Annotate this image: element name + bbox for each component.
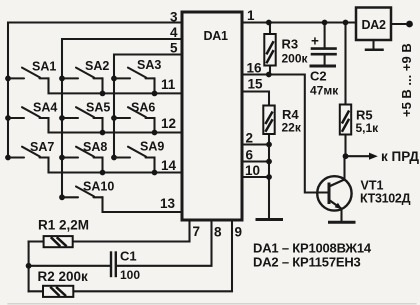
svg-text:C1: C1 (120, 249, 137, 264)
svg-text:200к: 200к (282, 52, 309, 66)
svg-text:47мк: 47мк (310, 84, 339, 98)
svg-text:12: 12 (161, 116, 176, 131)
svg-text:SA10: SA10 (83, 180, 114, 194)
svg-text:КТ3102Д: КТ3102Д (360, 192, 411, 206)
svg-text:SA6: SA6 (131, 101, 155, 115)
svg-text:5,1к: 5,1к (356, 121, 380, 135)
svg-text:2: 2 (246, 131, 254, 146)
svg-text:R3: R3 (282, 37, 299, 52)
svg-text:DA1: DA1 (204, 29, 228, 43)
svg-text:SA2: SA2 (85, 59, 109, 73)
svg-text:9: 9 (235, 225, 243, 240)
svg-text:11: 11 (161, 77, 176, 92)
svg-text:16: 16 (247, 61, 263, 76)
svg-text:1: 1 (247, 8, 255, 23)
svg-text:C2: C2 (310, 69, 327, 84)
svg-text:DA2: DA2 (362, 18, 386, 32)
svg-text:13: 13 (160, 196, 176, 211)
svg-text:SA5: SA5 (86, 101, 110, 115)
svg-text:SA3: SA3 (137, 58, 161, 72)
svg-text:SA4: SA4 (33, 101, 57, 115)
svg-text:DA1 – КР1008ВЖ14: DA1 – КР1008ВЖ14 (253, 241, 372, 256)
svg-text:10: 10 (245, 163, 260, 178)
svg-text:+: + (311, 34, 319, 49)
svg-text:3: 3 (170, 10, 178, 25)
svg-text:SA1: SA1 (32, 60, 56, 74)
svg-text:4: 4 (170, 25, 178, 40)
svg-text:8: 8 (214, 225, 222, 240)
svg-text:SA7: SA7 (30, 140, 54, 154)
svg-text:SA9: SA9 (140, 140, 164, 154)
svg-text:14: 14 (161, 158, 177, 173)
svg-text:7: 7 (193, 224, 201, 239)
svg-text:DA2 – КР1157ЕН3: DA2 – КР1157ЕН3 (253, 255, 361, 270)
svg-text:к ПРД: к ПРД (381, 149, 419, 164)
svg-text:5: 5 (170, 41, 178, 56)
svg-text:+5 В ... +9 В: +5 В ... +9 В (399, 43, 414, 117)
svg-text:R2 200к: R2 200к (38, 269, 89, 284)
svg-text:R1 2,2М: R1 2,2М (38, 218, 89, 233)
svg-text:15: 15 (248, 77, 264, 92)
svg-text:22к: 22к (282, 121, 302, 135)
svg-text:VT1: VT1 (361, 179, 384, 193)
svg-text:6: 6 (246, 148, 254, 163)
svg-text:100: 100 (120, 268, 140, 282)
